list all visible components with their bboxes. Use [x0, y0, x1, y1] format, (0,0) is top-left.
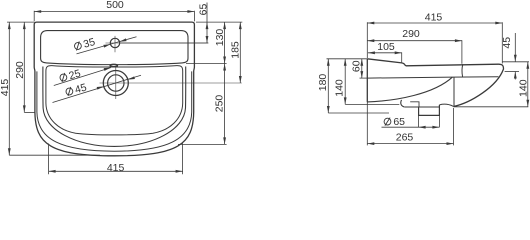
svg-text:185: 185 — [230, 41, 242, 59]
svg-text:250: 250 — [213, 95, 225, 113]
svg-text:290: 290 — [14, 61, 26, 79]
svg-text:65: 65 — [393, 116, 405, 128]
svg-text:105: 105 — [377, 41, 395, 53]
svg-text:45: 45 — [73, 81, 88, 96]
svg-text:130: 130 — [214, 29, 226, 47]
svg-text:415: 415 — [425, 11, 443, 23]
svg-text:45: 45 — [501, 37, 513, 49]
svg-text:180: 180 — [317, 74, 329, 92]
svg-text:415: 415 — [0, 79, 11, 97]
svg-text:140: 140 — [334, 79, 346, 97]
svg-text:415: 415 — [107, 162, 125, 174]
svg-text:140: 140 — [518, 79, 530, 97]
svg-text:65: 65 — [197, 4, 209, 16]
svg-text:265: 265 — [396, 131, 414, 143]
svg-text:60: 60 — [351, 60, 363, 72]
svg-text:290: 290 — [402, 28, 420, 40]
svg-text:500: 500 — [106, 0, 124, 11]
svg-text:25: 25 — [67, 67, 82, 82]
